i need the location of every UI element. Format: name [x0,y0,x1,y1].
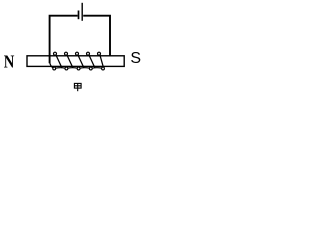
battery B1 positive plate (long) [81,3,83,21]
wire top-right segment [83,16,110,57]
caption 甲 (figure label) drawn as strokes [74,83,81,91]
svg-text:N: N [4,51,15,71]
battery B1 negative plate (short) [78,11,80,20]
coil L1 diagonal windings across core [56,55,104,68]
coil L1 lead-in curve from left wire [50,62,53,68]
coil L1 top loops [54,52,101,55]
wire top-left segment [50,16,78,64]
svg-text:S: S [130,50,141,67]
coil L1 bottom curls [53,67,105,70]
iron core bar [27,56,124,67]
